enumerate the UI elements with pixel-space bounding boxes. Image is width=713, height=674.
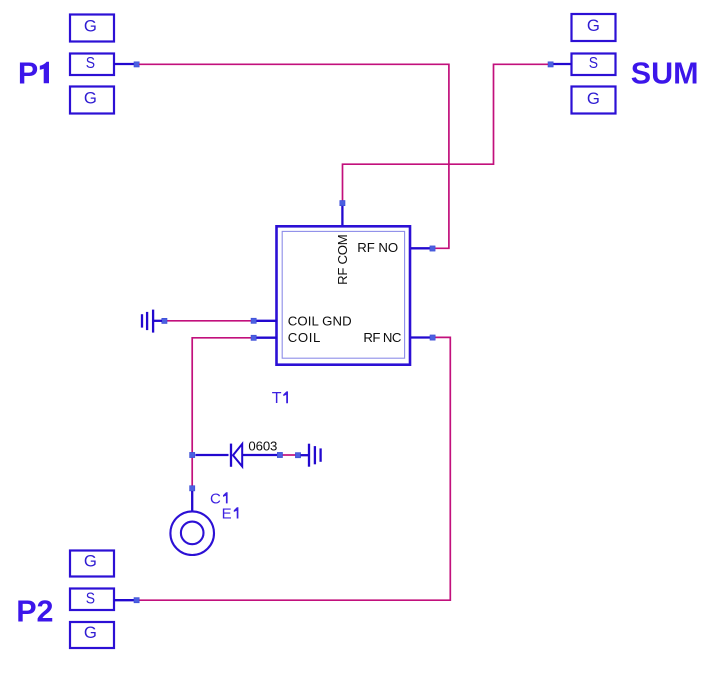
wire net P2.S to T1.RF_NC <box>139 337 450 600</box>
pin P2.S <box>114 598 139 603</box>
ground GND1 symbol <box>142 310 162 333</box>
wire net SUM.S to T1.RF_COM <box>343 64 549 201</box>
ground GND2 pin square <box>295 453 300 458</box>
port SUM pad G top <box>572 14 616 41</box>
diode D1 symbol <box>231 444 242 467</box>
svg-text:S: S <box>589 55 598 72</box>
port SUM pad G bottom <box>572 87 616 114</box>
relay T1 body <box>277 226 411 364</box>
port P2 pad G top <box>70 551 114 577</box>
svg-text:RF NO: RF NO <box>357 240 398 255</box>
pin T1.COIL <box>251 335 277 340</box>
svg-text:S: S <box>86 590 95 607</box>
wire net T1.COIL to diode and E1 <box>192 338 251 486</box>
pin P1.S <box>114 62 139 67</box>
svg-text:COIL: COIL <box>288 330 321 345</box>
pin T1.RF_NO <box>411 246 435 251</box>
svg-text:0603: 0603 <box>248 438 277 453</box>
port P1 pad G top <box>70 15 114 42</box>
port P1 pad S <box>70 54 114 76</box>
diode cathode pin wire <box>195 454 228 456</box>
diode anode pin square <box>277 452 282 457</box>
svg-text:E: E <box>222 506 232 523</box>
svg-text:RF NC: RF NC <box>363 330 401 345</box>
svg-text:G: G <box>587 17 600 35</box>
ground GND2 symbol <box>301 444 321 467</box>
test point E1 pin wire <box>191 491 193 511</box>
port P2 pad G bottom <box>70 622 114 648</box>
svg-text:G: G <box>84 17 97 35</box>
svg-text:P2: P2 <box>16 595 53 629</box>
pin T1.RF_COM (top) <box>340 201 345 226</box>
svg-text:G: G <box>84 89 97 107</box>
svg-text:G: G <box>587 90 600 108</box>
wire net GND1 to T1.COIL_GND <box>167 320 252 322</box>
svg-text:P: P <box>18 57 38 91</box>
wire net diode anode to GND2 <box>282 454 295 456</box>
diode junction pin square <box>190 452 195 457</box>
test point E1 symbol <box>170 511 214 555</box>
pin T1.RF_NC <box>411 335 435 340</box>
svg-text:G: G <box>84 624 97 642</box>
svg-text:S: S <box>86 55 95 72</box>
pin SUM.S <box>548 62 572 67</box>
diode anode pin wire <box>243 454 278 456</box>
port SUM pad S <box>572 54 616 76</box>
svg-text:RF COM: RF COM <box>335 234 350 285</box>
ground GND1 pin square <box>162 318 167 323</box>
test point E1 pin square <box>190 486 195 491</box>
svg-text:SUM: SUM <box>631 57 699 91</box>
svg-text:G: G <box>84 552 97 570</box>
port P1 pad G bottom <box>70 87 114 114</box>
svg-text:T: T <box>272 390 282 407</box>
pin T1.COIL_GND <box>251 318 277 323</box>
svg-text:C: C <box>210 490 221 507</box>
port P2 pad S <box>70 589 114 611</box>
wire net P1.S to T1.RF_NO <box>139 64 449 248</box>
svg-text:COIL GND: COIL GND <box>288 314 352 329</box>
port P1 label <box>18 57 49 91</box>
